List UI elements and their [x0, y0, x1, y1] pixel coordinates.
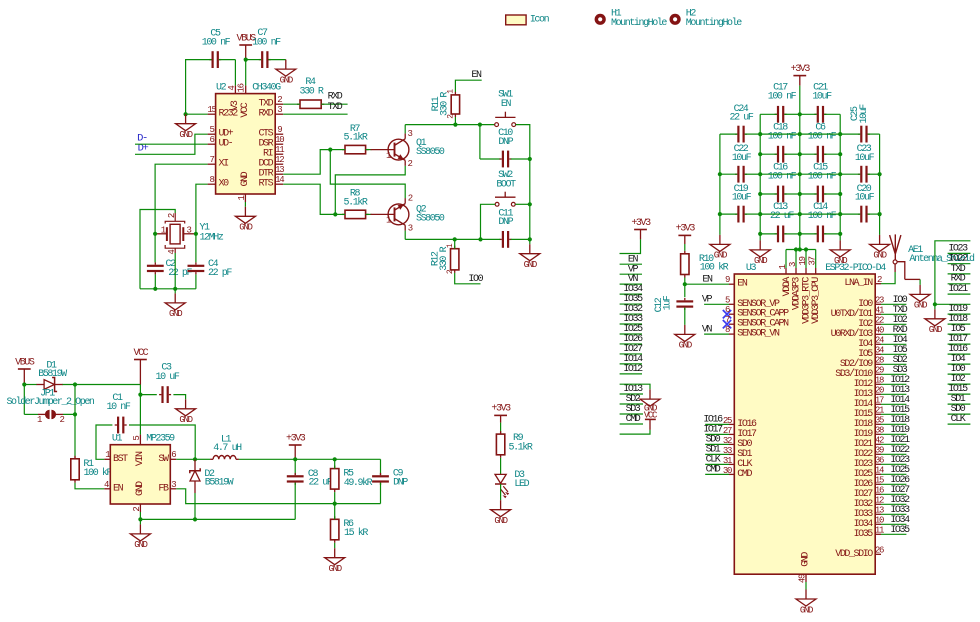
wire C21 row — [800, 113, 840, 115]
switch SW1 EN — [495, 89, 516, 126]
switch SW2 BOOT — [495, 170, 516, 206]
junction IO0-R12 — [453, 237, 457, 241]
svg-text:GND: GND — [280, 75, 293, 85]
junction D2 gnd — [193, 517, 197, 521]
op-amp U3 ESP32-PICO-D4 body — [734, 263, 886, 574]
svg-text:CLK: CLK — [951, 414, 966, 425]
capacitor C21 — [812, 83, 832, 123]
wire SW2 right — [515, 203, 530, 205]
wire C3 right — [173, 395, 185, 400]
capacitor C18 — [768, 123, 797, 163]
ground bracket — [640, 389, 660, 413]
capacitor C20 — [855, 184, 875, 223]
wire R8 junction — [335, 213, 345, 215]
svg-text:100 nF: 100 nF — [252, 38, 281, 49]
junction bus left C16 — [758, 192, 762, 196]
junction bus right C6 — [838, 152, 842, 156]
svg-text:EN: EN — [471, 70, 482, 81]
svg-text:FB: FB — [158, 483, 169, 494]
ground C12 — [675, 325, 695, 351]
U3 left pins lower with labels — [703, 415, 757, 480]
wire C10 branch — [480, 125, 500, 159]
wire row C22-C23 — [720, 173, 880, 175]
svg-text:VCC: VCC — [240, 102, 251, 117]
right column labels — [948, 243, 971, 425]
resistor R10 — [681, 244, 729, 278]
svg-text:100 kR: 100 kR — [84, 467, 113, 479]
wire FB row — [176, 489, 380, 504]
svg-text:XI: XI — [219, 159, 229, 170]
power flag +3V3 R10 — [676, 224, 696, 244]
wire RTS to R8 — [283, 184, 335, 214]
wire right rail SW1-SW2 — [529, 159, 531, 204]
wire C6 row — [800, 153, 840, 155]
wire R1 to EN pin — [75, 483, 104, 489]
wire C12 gnd — [684, 308, 686, 325]
junction far buses C22 row — [718, 172, 882, 176]
wire R10 to EN — [684, 278, 686, 285]
left column labels IO13..CMD — [620, 384, 643, 425]
svg-text:49.9kR: 49.9kR — [344, 477, 373, 489]
junction JP1-R1 — [73, 412, 77, 416]
ground R6 — [325, 548, 345, 574]
svg-text:GND: GND — [714, 251, 727, 261]
wire U2 gnd pin — [244, 202, 246, 207]
wire row C24-C25 — [720, 133, 880, 135]
junction EN esp — [683, 282, 687, 286]
wire DTR to Q2 emitter — [330, 150, 405, 199]
wire R12 to IO0 label — [455, 273, 481, 284]
junction SW2 right — [528, 202, 532, 206]
svg-text:DNP: DNP — [498, 137, 513, 148]
svg-text:CMD: CMD — [737, 469, 752, 480]
wire EN row to SW1 — [455, 124, 494, 126]
wire SW2 left — [481, 204, 496, 239]
ground far-left bus — [710, 235, 730, 261]
svg-text:DNP: DNP — [498, 217, 513, 228]
capacitor C14 — [808, 202, 837, 242]
label EN top — [471, 70, 482, 81]
svg-text:10uF: 10uF — [859, 104, 870, 124]
svg-text:+3V3: +3V3 — [286, 433, 306, 444]
svg-text:EN: EN — [737, 279, 748, 290]
capacitor C7 — [252, 28, 281, 68]
junction rail C22 row — [798, 172, 802, 176]
junction C10 right — [528, 157, 532, 161]
svg-text:UD-: UD- — [219, 139, 233, 150]
junction R232-gnd — [184, 112, 188, 116]
label IO0 bottom — [468, 274, 483, 285]
capacitor C22 — [732, 144, 752, 183]
svg-text:SENSOR_VN: SENSOR_VN — [737, 329, 780, 340]
svg-text:100 nF: 100 nF — [768, 132, 797, 143]
capacitor C24 — [730, 104, 754, 143]
svg-text:U1: U1 — [112, 434, 123, 445]
junction R5 top — [333, 457, 337, 461]
wire V3 pin4 drop — [234, 60, 236, 86]
capacitor C4 — [188, 234, 233, 289]
svg-text:ESP32-PICO-D4: ESP32-PICO-D4 — [825, 263, 886, 274]
capacitor C3 — [156, 363, 180, 404]
wire Q2 collector to IO0 row — [405, 231, 480, 240]
wire right column gnd row — [935, 303, 971, 305]
wire C18 row — [760, 153, 800, 155]
wire VN — [704, 333, 729, 335]
svg-text:+3V3: +3V3 — [676, 224, 696, 235]
capacitor C25 — [850, 104, 870, 143]
svg-text:1uF: 1uF — [662, 295, 673, 310]
wire C10 right — [511, 158, 530, 160]
label D+ — [138, 142, 149, 154]
wire R8 to Q2 base — [366, 213, 372, 215]
wire U3 gnd — [805, 582, 807, 590]
svg-text:26: 26 — [875, 546, 884, 556]
svg-text:VCC: VCC — [134, 348, 149, 359]
diode D1 B5819W — [37, 361, 68, 392]
wire R12 top — [454, 239, 456, 248]
wire LNA_IN — [881, 272, 895, 284]
wire R232 junction — [186, 113, 208, 115]
wire L1 to 3V3 — [239, 458, 381, 460]
power flag VBUS — [237, 33, 257, 59]
svg-text:CH340G: CH340G — [252, 83, 281, 94]
wire D3 to gnd — [500, 484, 502, 500]
svg-text:SolderJumper_2_Open: SolderJumper_2_Open — [6, 396, 94, 408]
svg-text:10: 10 — [275, 135, 284, 145]
wire C15 row — [800, 193, 840, 195]
wire crystal gnd row — [140, 288, 196, 290]
svg-text:10 uF: 10 uF — [156, 372, 180, 383]
legend icon box — [506, 14, 550, 25]
wire XI to crystal — [155, 164, 208, 234]
capacitor C5 — [202, 29, 231, 69]
svg-text:100 nF: 100 nF — [808, 171, 837, 182]
power flag +3V3 column — [631, 218, 651, 240]
wire pin4 drop — [174, 253, 176, 293]
no-connect X pin6 — [723, 310, 731, 318]
junction buses C19 row — [758, 212, 842, 216]
no-connect X pin7 — [723, 320, 731, 328]
wire C17 row — [760, 113, 800, 115]
power flag +3V3 esp — [791, 64, 811, 86]
label EN esp — [702, 274, 713, 285]
junction DTR node — [328, 148, 332, 152]
wire U1 gnd — [139, 512, 141, 524]
svg-text:GND: GND — [494, 516, 507, 526]
wire inner-right bus — [839, 114, 841, 240]
wire C14 row — [800, 233, 840, 235]
svg-text:EN: EN — [113, 483, 124, 494]
junction EN-R11 — [453, 123, 457, 127]
svg-text:100 nF: 100 nF — [808, 132, 837, 143]
junction RTS node — [333, 212, 337, 216]
wire VBUS-C7 — [246, 59, 261, 61]
svg-text:37: 37 — [808, 256, 818, 265]
crystal Y1 — [155, 213, 224, 255]
wire R5 stubs — [334, 459, 336, 503]
junction D1-JP1 — [73, 382, 77, 386]
svg-text:MountingHole: MountingHole — [686, 17, 742, 29]
resistor R5 — [331, 466, 373, 493]
capacitor C23 — [855, 144, 875, 183]
mounting hole H1 — [595, 9, 668, 30]
capacitor C8 — [287, 459, 333, 519]
wire far-left bus — [719, 134, 721, 235]
junction rail C19 row — [798, 212, 802, 216]
solder jumper JP1 — [6, 389, 94, 425]
ground inner-right bus — [830, 240, 850, 266]
svg-text:100 kR: 100 kR — [700, 261, 729, 273]
wire C13 row — [760, 233, 800, 235]
junction X0-C4 — [194, 232, 198, 236]
ground C7 — [276, 60, 296, 86]
resistor R7 — [342, 124, 369, 154]
U3 right pins with labels — [831, 275, 910, 540]
junction rail C24 row — [798, 132, 802, 136]
wire R7 junction — [330, 149, 345, 151]
wire D+ to UD+ — [135, 134, 208, 154]
junction bus right C14 — [838, 232, 842, 236]
svg-text:B5819W: B5819W — [38, 369, 67, 380]
svg-text:+3V3: +3V3 — [631, 218, 651, 229]
junction buses C22 row — [758, 172, 842, 176]
wire R6 top — [334, 504, 336, 520]
svg-text:5.1kR: 5.1kR — [344, 132, 368, 144]
wire 3V3 to R9 — [500, 423, 502, 435]
svg-text:GND: GND — [929, 325, 942, 335]
svg-text:22 uF: 22 uF — [730, 113, 754, 124]
junction XI-C2 — [153, 232, 157, 236]
capacitor C10 — [498, 128, 513, 168]
junction buses C24 row — [758, 132, 842, 136]
junction rail C17 — [798, 112, 802, 116]
svg-text:X0: X0 — [219, 179, 230, 190]
wire R11 bottom — [454, 117, 456, 125]
svg-text:11: 11 — [275, 145, 284, 155]
svg-text:100 nF: 100 nF — [808, 211, 837, 222]
junction right column — [933, 302, 937, 306]
svg-text:GND: GND — [914, 301, 927, 311]
capacitor C6 — [808, 123, 837, 163]
wire R7 to Q1 base — [366, 149, 372, 151]
wire D1 to VCC node — [63, 384, 141, 386]
svg-text:GND: GND — [679, 341, 692, 351]
U2 right pins — [258, 95, 284, 190]
svg-text:VIN: VIN — [135, 451, 146, 466]
svg-text:BST: BST — [113, 454, 128, 465]
junction VBUS-D1 — [22, 382, 26, 386]
wire C11 right — [511, 238, 530, 240]
svg-text:10uF: 10uF — [855, 193, 875, 204]
ground crystal — [165, 293, 185, 319]
wire EN to chip — [685, 283, 729, 285]
junction U1 gnd — [138, 517, 142, 521]
wire R6 bottom — [334, 543, 336, 548]
wire row C19-C20 — [720, 213, 880, 215]
ground U1 — [130, 524, 150, 550]
wire 3v3 column — [620, 239, 641, 253]
label TXD — [328, 102, 343, 113]
wire inner-left bus — [759, 114, 761, 240]
ground right column — [925, 309, 945, 335]
capacitor C1 — [107, 393, 131, 433]
svg-text:22 pF: 22 pF — [168, 268, 192, 279]
svg-text:100 nF: 100 nF — [768, 171, 797, 182]
wire DTR to R7 — [283, 150, 330, 175]
svg-text:GND: GND — [801, 552, 812, 567]
wire C5-VBUS — [219, 59, 236, 61]
svg-text:GND: GND — [754, 256, 767, 266]
svg-text:SS8050: SS8050 — [416, 147, 445, 158]
mounting hole H2 — [670, 9, 743, 30]
junction VBUS node — [244, 58, 248, 62]
svg-text:19: 19 — [798, 256, 808, 265]
wire gnd drop right rail — [529, 239, 531, 244]
svg-text:GND: GND — [873, 251, 886, 261]
wire VCC down to VIN — [139, 385, 141, 435]
svg-text:VBUS: VBUS — [15, 357, 35, 368]
wire R4 to RXD label — [321, 103, 347, 105]
svg-text:10 nF: 10 nF — [107, 402, 131, 413]
wire C5 left to gnd rail — [186, 60, 212, 115]
op-amp U1 MP2359 body — [110, 434, 175, 505]
resistor R12 — [430, 243, 459, 274]
junction C2 bottom — [153, 287, 157, 291]
U3 bottom pin GND — [797, 552, 811, 583]
svg-text:22 uF: 22 uF — [309, 478, 333, 489]
wire right column top — [935, 241, 971, 304]
wire vcc bracket bottom — [620, 430, 650, 434]
svg-text:+3V3: +3V3 — [791, 64, 811, 75]
junction EN-C10 — [478, 123, 482, 127]
capacitor C11 — [498, 208, 513, 248]
wire JP1 to node — [56, 385, 75, 415]
ground far-right bus — [870, 235, 890, 261]
junction SW-D2 — [193, 457, 197, 461]
svg-text:10uF: 10uF — [732, 193, 752, 204]
wire C7 right — [269, 59, 286, 61]
wire VP — [704, 303, 729, 305]
U2 top pins V3 VCC — [227, 83, 251, 117]
svg-text:GND: GND — [169, 309, 182, 319]
wire C3 left — [140, 394, 156, 396]
svg-text:GND: GND — [239, 223, 252, 233]
ground SW rail — [520, 244, 540, 270]
svg-text:VDD_SDIO: VDD_SDIO — [835, 549, 873, 560]
junction far buses C19 row — [718, 212, 882, 216]
svg-text:SS8050: SS8050 — [416, 213, 445, 224]
resistor R4 — [297, 77, 324, 109]
svg-text:13: 13 — [275, 165, 284, 175]
wire crystal pin2 top — [140, 210, 175, 289]
wire EN to C12 — [684, 284, 686, 297]
wire C16 row — [760, 193, 800, 195]
junction Y1 pin4 bottom — [173, 287, 177, 291]
wire JP1 branch — [24, 385, 45, 415]
wire rail to top pins — [786, 250, 816, 269]
svg-text:GND: GND — [135, 481, 146, 496]
ground antenna — [910, 285, 930, 311]
resistor R9 — [496, 431, 532, 458]
wire R1 top — [74, 414, 76, 458]
capacitor C9 DNP — [372, 459, 408, 503]
transistor Q2 — [371, 194, 445, 234]
wire Q1 collector to EN row — [405, 125, 455, 134]
svg-text:TXD: TXD — [328, 102, 343, 113]
junction C11 left — [478, 237, 482, 241]
junction 3V3-C8 — [293, 457, 297, 461]
wire right rail SW2-C11 — [529, 204, 531, 239]
svg-text:IO0: IO0 — [468, 274, 483, 285]
svg-text:49: 49 — [797, 574, 807, 583]
svg-text:12: 12 — [275, 155, 284, 165]
U2 left pins — [207, 105, 238, 190]
U2 bottom pin GND — [237, 171, 251, 202]
svg-text:MountingHole: MountingHole — [611, 17, 667, 29]
svg-text:100 nF: 100 nF — [768, 92, 797, 103]
wire SW to L1 — [195, 458, 210, 460]
svg-text:10uF: 10uF — [855, 153, 875, 164]
power flag +3V3 led — [491, 404, 511, 423]
svg-text:12MHz: 12MHz — [200, 232, 224, 243]
wire VBUS to D1 — [24, 384, 37, 386]
junction rail C18 — [798, 152, 802, 156]
wire EN label — [455, 80, 481, 92]
junction bus right C15 — [838, 192, 842, 196]
svg-text:GND: GND — [240, 171, 251, 186]
capacitor C13 — [770, 202, 794, 242]
transistor Q1 — [371, 129, 445, 169]
capacitor C15 — [808, 162, 837, 202]
svg-text:5.1kR: 5.1kR — [509, 442, 533, 454]
left column labels EN..IO12 — [620, 254, 643, 375]
wire RTS to Q1 emitter — [335, 166, 405, 215]
power flag VCC — [134, 348, 149, 385]
ground U2 pin1 — [235, 207, 255, 233]
svg-text:GND: GND — [524, 260, 537, 270]
ground inner-left bus — [750, 240, 770, 266]
ground D3 — [491, 500, 511, 526]
label VN — [702, 325, 713, 336]
svg-text:U3: U3 — [746, 263, 757, 274]
U3 VDD_SDIO pin — [835, 546, 884, 560]
svg-text:MP2359: MP2359 — [146, 434, 175, 445]
power flag +3V3 buck — [286, 433, 306, 459]
svg-text:GND: GND — [800, 605, 813, 615]
label RXD — [328, 92, 343, 103]
svg-text:+3V3: +3V3 — [491, 404, 511, 415]
U3 top pins — [778, 256, 822, 323]
label D- — [137, 132, 147, 144]
LED D3 — [495, 470, 530, 499]
svg-text:10uF: 10uF — [812, 92, 832, 103]
wire C11 left — [481, 238, 501, 240]
svg-text:DNP: DNP — [393, 478, 408, 489]
svg-text:RXD: RXD — [258, 109, 273, 120]
svg-text:B5819W: B5819W — [205, 478, 234, 489]
svg-text:GND: GND — [179, 130, 192, 140]
junction FB-R5 — [333, 502, 337, 506]
wire R9 to D3 — [500, 458, 502, 475]
svg-text:U2: U2 — [216, 83, 227, 94]
svg-text:16: 16 — [237, 83, 247, 92]
wire gnd row — [140, 518, 295, 520]
wire X0 to crystal — [196, 184, 208, 234]
svg-text:14: 14 — [275, 175, 284, 185]
wire antenna shield gnd — [919, 279, 921, 285]
junction rail C16 — [798, 192, 802, 196]
capacitor C19 — [732, 184, 752, 223]
